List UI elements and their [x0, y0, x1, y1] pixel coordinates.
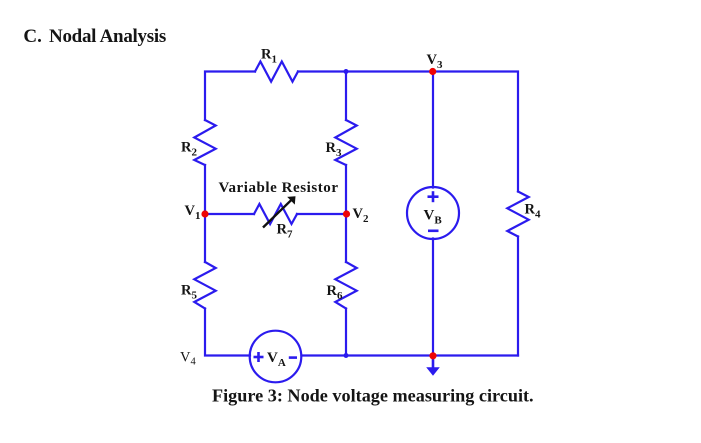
svg-text:C.: C.: [23, 26, 41, 47]
wire top-left segment: [205, 72, 255, 121]
wire middle branch center: [345, 165, 347, 262]
wire R7 to node V2: [297, 213, 346, 215]
resistor R4: [507, 192, 528, 237]
wire bottom segment right of VA: [302, 354, 519, 356]
wire right-bottom segment: [517, 237, 519, 356]
svg-text:Figure 3: Node voltage measuri: Figure 3: Node voltage measuring circuit…: [212, 386, 534, 406]
wire left-middle segment: [204, 165, 206, 262]
ground arrow: [426, 356, 440, 376]
wire middle branch bottom: [345, 309, 347, 356]
node V1 red dot: [201, 210, 208, 217]
VB plus sign: [254, 191, 439, 362]
resistor R7 variable: [254, 204, 297, 224]
resistor R2: [194, 120, 215, 165]
node V2 red dot: [343, 210, 350, 217]
VA minus sign: [289, 356, 297, 359]
junction node top of R3 branch: [344, 69, 349, 74]
junction node bottom of R6 branch: [344, 353, 349, 358]
variable resistor arrow R7: [263, 196, 296, 227]
ground node red dot: [429, 352, 436, 359]
wire VB bottom to ground node: [432, 239, 434, 356]
voltage source VB circle: [407, 187, 459, 239]
VB minus sign: [428, 230, 439, 233]
resistor R6: [335, 262, 356, 309]
svg-text:Variable Resistor: Variable Resistor: [219, 180, 339, 196]
node V3 red dot: [429, 68, 436, 75]
wire top-right segment: [298, 72, 518, 192]
wire V3 branch to VB top: [432, 72, 434, 188]
resistor R5: [194, 262, 215, 309]
resistor R3: [335, 120, 356, 165]
wire left-bottom segment: [205, 309, 250, 356]
voltage source VA circle: [250, 331, 302, 383]
svg-text:Nodal Analysis: Nodal Analysis: [49, 26, 166, 47]
wire middle branch top: [345, 72, 347, 121]
wire node V1 to R7: [205, 213, 254, 215]
VA plus sign: [254, 356, 264, 359]
resistor R1: [255, 62, 298, 82]
